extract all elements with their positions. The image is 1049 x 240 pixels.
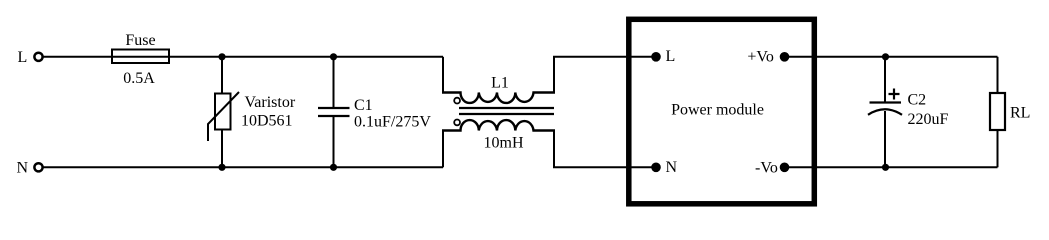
svg-text:C1: C1 [354, 97, 373, 114]
pin L dot [651, 52, 661, 62]
wire varistor top lead [221, 57, 223, 94]
capacitor C2 plus sign [889, 89, 900, 100]
label Power module [671, 102, 764, 119]
pin -Vo dot [780, 163, 790, 173]
svg-text:220uF: 220uF [908, 111, 949, 128]
svg-text:10D561: 10D561 [241, 113, 293, 130]
label L1 [491, 75, 509, 92]
svg-text:+Vo: +Vo [747, 49, 774, 66]
wire C2 top lead [884, 57, 886, 103]
svg-text:N: N [666, 159, 678, 176]
wire C2 bottom lead [884, 111, 886, 167]
svg-text:0.1uF/275V: 0.1uF/275V [354, 114, 431, 131]
polarity dot top [454, 98, 460, 104]
wire top rail left [43, 56, 443, 58]
label 10mH [484, 135, 524, 152]
pin +Vo dot [780, 52, 790, 62]
wire N pin stub [631, 166, 656, 168]
wire choke top-left lead [442, 57, 444, 93]
svg-text:Varistor: Varistor [245, 94, 296, 111]
label C2 value [908, 92, 949, 129]
wire bottom rail right [785, 166, 998, 168]
wire RL bottom lead [997, 130, 999, 167]
wire L pin stub [631, 56, 656, 58]
pin label N [666, 159, 678, 176]
wire RL top lead [997, 57, 999, 93]
wire C1 top lead [333, 57, 335, 108]
capacitor C2 220uF [868, 103, 902, 115]
wire choke bottom-left lead [442, 131, 444, 168]
pin label -Vo [755, 159, 778, 176]
svg-text:0.5A: 0.5A [123, 70, 155, 87]
node junction C1 bottom [330, 164, 337, 171]
node junction C2 bottom [882, 164, 889, 171]
wire choke top-right lead [554, 57, 656, 93]
node junction C1 top [330, 53, 337, 60]
node junction varistor bottom [218, 164, 225, 171]
svg-text:L1: L1 [491, 75, 509, 92]
svg-text:RL: RL [1010, 105, 1030, 122]
svg-text:Power module: Power module [671, 102, 764, 119]
svg-text:-Vo: -Vo [755, 159, 778, 176]
capacitor C1 0.1uF/275V [318, 108, 350, 116]
node junction C2 top [882, 53, 889, 60]
wire C1 bottom lead [333, 116, 335, 167]
svg-text:Fuse: Fuse [125, 32, 155, 49]
terminal L [18, 49, 43, 66]
label RL [1010, 105, 1030, 122]
label Varistor 10D561 [241, 94, 296, 130]
pin label +Vo [747, 49, 774, 66]
wire bottom rail left [43, 166, 443, 168]
node junction varistor top [218, 53, 225, 60]
svg-text:L: L [666, 48, 676, 65]
terminal N [17, 160, 43, 177]
wire top rail right [785, 56, 998, 58]
pin N dot [651, 163, 661, 173]
svg-text:N: N [17, 160, 29, 177]
svg-text:10mH: 10mH [484, 135, 524, 152]
wire choke bottom-right lead [554, 131, 656, 168]
core lines L1 [459, 108, 554, 114]
power module U1 [629, 19, 815, 204]
inductor L1 bottom winding [442, 120, 555, 130]
svg-text:L: L [18, 49, 28, 66]
fuse F (Fuse 0.5A) [112, 32, 169, 87]
inductor L1 top winding [442, 93, 555, 103]
polarity dot bottom [454, 120, 460, 126]
label C1 value [354, 97, 431, 131]
varistor RV1 10D561 [208, 92, 239, 141]
svg-text:C2: C2 [908, 92, 927, 109]
wire varistor bottom lead [221, 130, 223, 168]
pin label L [666, 48, 676, 65]
resistor RL [990, 93, 1005, 130]
